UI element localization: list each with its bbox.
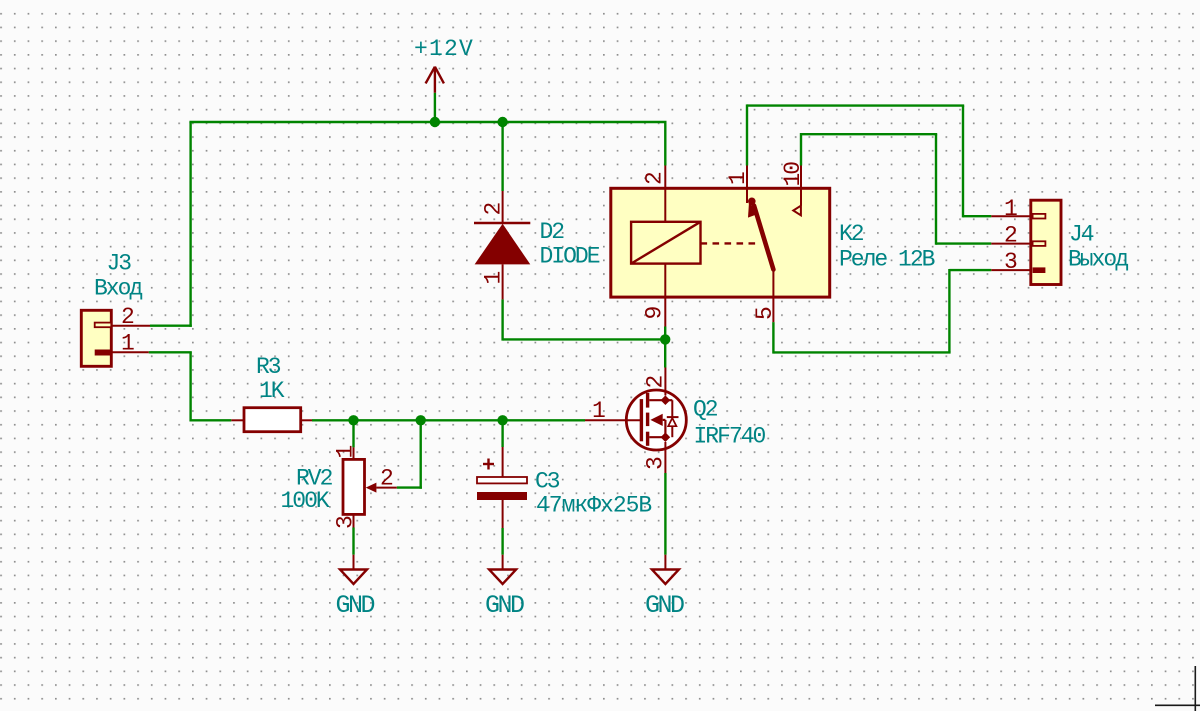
svg-text:Q2: Q2 <box>693 397 718 423</box>
wire top horizontal +12V rail <box>189 121 666 123</box>
wire bottom horizontal to J4 pin3 <box>773 351 950 353</box>
wire J3 pin1 vertical drop <box>189 352 191 421</box>
relay K2 body <box>611 188 830 297</box>
wire C3 top <box>501 420 503 447</box>
diode D2 <box>474 191 530 299</box>
potentiometer RV2 <box>343 447 397 527</box>
svg-text:2: 2 <box>380 466 393 492</box>
svg-text:1: 1 <box>592 398 605 424</box>
junction at diode top <box>497 117 507 127</box>
wire C3 to GND <box>501 528 503 555</box>
wire junction to Q2 drain <box>664 339 666 367</box>
svg-text:D2: D2 <box>540 219 565 245</box>
ground under RV2 <box>340 555 367 584</box>
relay pivot dot <box>748 198 756 206</box>
capacitor C3 <box>477 447 527 528</box>
svg-text:GND: GND <box>485 591 524 620</box>
junction at RV2 top <box>348 415 358 425</box>
svg-text:2: 2 <box>121 304 134 330</box>
wire relay pin1 top horizontal <box>747 104 964 106</box>
wire diode bottom horizontal <box>503 338 666 340</box>
wire J4 pin3 horizontal <box>949 269 991 271</box>
svg-text:2: 2 <box>481 203 507 216</box>
wire J4 pin1 horizontal <box>963 215 991 217</box>
wire R3 to Q2 gate <box>312 419 585 421</box>
relay coil <box>631 222 700 264</box>
wire relay pin5 drop <box>772 322 774 354</box>
svg-text:1: 1 <box>333 446 359 459</box>
wire +12V stem <box>434 93 436 122</box>
wire J3 pin2 horizontal <box>150 325 192 327</box>
resistor R3 <box>231 408 312 432</box>
svg-text:IRF740: IRF740 <box>694 424 766 450</box>
junction at +12V <box>430 117 440 127</box>
svg-text:3: 3 <box>333 516 359 529</box>
svg-text:GND: GND <box>645 591 684 620</box>
svg-text:C3: C3 <box>535 469 560 495</box>
wire relay pin9 to junction <box>664 327 666 340</box>
svg-text:GND: GND <box>336 591 375 620</box>
junction below relay pin9 <box>660 334 670 344</box>
relay NC contact triangle <box>793 206 801 216</box>
relay coil pin 2 <box>664 166 666 222</box>
svg-text:9: 9 <box>642 307 668 320</box>
relay dashed link <box>701 242 760 244</box>
svg-text:+12V: +12V <box>414 36 474 62</box>
svg-text:3: 3 <box>1004 249 1017 275</box>
wire relay pin1 riser <box>746 104 748 165</box>
svg-text:K2: K2 <box>839 221 864 247</box>
wire to R3 <box>191 419 232 421</box>
wire J4 pin3 riser <box>948 269 950 352</box>
wire RV2 to GND <box>352 528 354 555</box>
wire J4 pin2 drop <box>935 134 937 245</box>
relay switch pin 5 <box>772 270 774 323</box>
wire RV2 wiper riser <box>420 420 422 489</box>
power symbol +12V <box>426 67 444 93</box>
svg-text:Вход: Вход <box>94 276 142 302</box>
wire relay pin2 riser <box>664 122 666 166</box>
wire RV2 top <box>352 420 354 447</box>
ground under Q2 <box>652 555 679 584</box>
svg-text:47мкФх25В: 47мкФх25В <box>536 493 651 519</box>
svg-text:Реле 12В: Реле 12В <box>839 247 935 273</box>
svg-text:J4: J4 <box>1069 222 1094 248</box>
wire diode bottom vertical <box>501 299 503 340</box>
connector J3 <box>81 310 150 366</box>
svg-text:100K: 100K <box>281 488 330 514</box>
svg-text:1: 1 <box>121 331 134 357</box>
relay arm arrowhead <box>748 202 758 218</box>
svg-text:10: 10 <box>780 162 806 187</box>
wire RV2 wiper horizontal <box>397 486 422 488</box>
svg-text:J3: J3 <box>107 251 132 277</box>
wire relay pin10 top horizontal <box>801 133 937 135</box>
relay NC pin 10 <box>800 166 802 206</box>
svg-text:R3: R3 <box>256 354 281 380</box>
wire J3 pin2 vertical riser <box>189 122 191 327</box>
sheet border corner <box>1155 666 1200 711</box>
ground under C3 <box>489 555 516 584</box>
svg-text:3: 3 <box>643 457 669 470</box>
svg-text:1: 1 <box>481 272 507 285</box>
wire J4 pin2 horizontal <box>936 242 991 244</box>
wire J4 pin1 drop <box>962 106 964 218</box>
svg-text:1: 1 <box>1004 196 1017 222</box>
transistor Q2 <box>585 368 686 474</box>
svg-text:Выход: Выход <box>1068 246 1128 272</box>
svg-text:2: 2 <box>1004 223 1017 249</box>
svg-text:1K: 1K <box>259 378 285 404</box>
relay switch arm <box>754 206 773 270</box>
junction at C3 top <box>497 415 507 425</box>
relay coil pin 9 <box>664 264 666 327</box>
wire diode top <box>501 122 503 191</box>
connector J4 <box>991 200 1061 284</box>
relay common pin 1 <box>746 166 748 204</box>
svg-text:2: 2 <box>642 172 668 185</box>
wire Q2 source to GND <box>664 473 666 555</box>
svg-text:1: 1 <box>725 172 751 185</box>
wire relay pin10 riser <box>800 133 802 166</box>
svg-text:2: 2 <box>643 376 669 389</box>
wire J3 pin1 horizontal <box>149 351 192 353</box>
junction at RV2 wiper <box>416 415 426 425</box>
svg-text:DIODE: DIODE <box>540 244 600 270</box>
svg-text:5: 5 <box>752 307 778 320</box>
